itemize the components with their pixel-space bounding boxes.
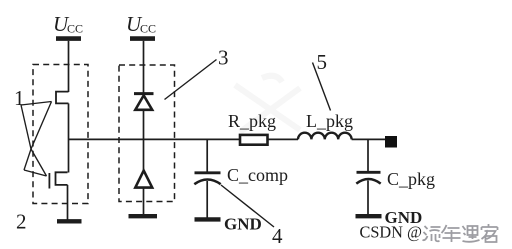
power rail bar (middle U_CC) — [130, 36, 155, 41]
wire: middle U_CC bar down to diode D1 — [143, 41, 145, 94]
node: C_comp branch — [206, 139, 208, 172]
transistor Q1 (upper jog of output stage) — [56, 92, 69, 104]
resistor R_pkg — [240, 135, 268, 145]
svg-text:GND: GND — [224, 215, 262, 234]
svg-text:CSDN @: CSDN @ — [360, 223, 423, 242]
main output wire to pad — [69, 138, 241, 140]
leader line for label 3 — [165, 60, 217, 100]
dashed box (clamp diodes) — [119, 65, 175, 202]
leader line for label 5 — [313, 63, 331, 111]
wire: inductor to pad — [352, 138, 385, 140]
watermark hanzi (drawn strokes) — [423, 224, 498, 242]
svg-text:L_pkg: L_pkg — [306, 111, 353, 131]
inductor L_pkg — [298, 133, 352, 140]
capacitor C_comp: top plate — [195, 171, 221, 174]
capacitor C_pkg: curved bottom plate — [356, 179, 380, 184]
power rail bar (left U_CC) — [56, 36, 81, 41]
leader lines from labels 1/2 (bowtie pointing at Q1 and Q2) — [21, 102, 52, 177]
hanzi ke — [482, 224, 498, 242]
hanzi guo — [463, 226, 480, 242]
svg-text:4: 4 — [272, 224, 283, 248]
svg-text:5: 5 — [317, 50, 328, 74]
svg-text:R_pkg: R_pkg — [228, 111, 276, 131]
hanzi nian — [442, 225, 461, 242]
ground bar (C_comp) — [195, 217, 221, 221]
faint CSDN background watermark — [235, 76, 300, 132]
capacitor C_comp: curved bottom plate — [194, 180, 220, 185]
wire: left U_CC bar down to transistor Q1 — [68, 41, 70, 92]
gate bar of Q2 — [48, 173, 50, 189]
wire: D2 down to ground — [143, 188, 145, 215]
leader line for label 4 — [221, 185, 274, 227]
node: C_pkg branch — [367, 139, 369, 172]
pad (package pin, filled square) — [385, 136, 397, 148]
wire: Q2 down to ground — [67, 185, 69, 220]
svg-text:CC: CC — [67, 22, 83, 36]
wire: resistor to inductor — [268, 138, 299, 140]
transistor Q2 (lower jog of output stage) — [56, 172, 68, 185]
wire: D1 through node to diode D2 — [143, 110, 145, 171]
svg-text:2: 2 — [16, 210, 27, 234]
hanzi liu — [423, 226, 441, 241]
svg-text:C_comp: C_comp — [227, 165, 288, 185]
ground bar (C_pkg) — [356, 214, 382, 218]
diode D1 (clamp to U_CC): cathode bar — [134, 92, 154, 95]
svg-text:C_pkg: C_pkg — [387, 169, 435, 189]
wire: C_pkg down to ground — [367, 181, 369, 215]
svg-text:3: 3 — [218, 46, 229, 70]
wire: Q1 down to output node and to transistor Q2 — [68, 103, 70, 172]
dashed box (output stage) — [33, 65, 88, 204]
svg-text:CC: CC — [140, 22, 156, 36]
ground bar (clamp box) — [129, 214, 158, 218]
diode D1 triangle — [135, 95, 152, 109]
ground bar (output stage) — [57, 219, 82, 223]
wire: C_comp down to ground — [206, 181, 208, 218]
diode D2 (clamp to GND): triangle — [135, 171, 152, 188]
svg-text:1: 1 — [14, 86, 25, 110]
capacitor C_pkg: top plate — [357, 171, 381, 174]
